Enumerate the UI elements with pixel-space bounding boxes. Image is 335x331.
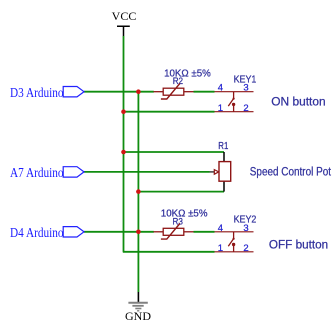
junction on D3 row	[136, 89, 141, 94]
svg-text:R1: R1	[218, 140, 228, 152]
connector A7 Arduino	[10, 166, 84, 181]
KEY1 pin 4-3 bar	[215, 91, 254, 93]
svg-text:D4 Arduino: D4 Arduino	[10, 226, 63, 241]
svg-text:2: 2	[243, 103, 248, 114]
R1 bottom lead	[223, 181, 225, 191]
svg-text:1: 1	[218, 103, 223, 114]
KEY1 switch contacts and lever	[233, 92, 235, 98]
svg-text:10KΩ ±5%: 10KΩ ±5%	[161, 208, 208, 220]
KEY2 switch contacts and lever	[233, 232, 235, 238]
R1 wiper arrow	[210, 171, 215, 173]
KEY2 pin 4-3 bar	[215, 231, 254, 233]
wire pot top row	[124, 151, 225, 153]
port symbol D3	[63, 87, 84, 97]
svg-text:1: 1	[218, 243, 223, 254]
wire A7 wiper row	[84, 171, 210, 173]
wire pot bottom row	[138, 191, 224, 193]
svg-text:4: 4	[218, 83, 223, 94]
svg-text:Speed Control Pot: Speed Control Pot	[250, 165, 332, 179]
R1 top lead	[223, 152, 225, 162]
junction on KEY1 pin1 row	[121, 109, 126, 114]
KEY2 pin 1-2 bar	[215, 251, 254, 253]
wire R3 to KEY2 pin4	[194, 231, 215, 233]
svg-text:D3 Arduino: D3 Arduino	[10, 86, 63, 101]
svg-text:R2: R2	[173, 76, 183, 86]
ground bars	[128, 302, 147, 304]
connector D3 Arduino	[10, 86, 84, 101]
svg-text:OFF button: OFF button	[269, 237, 328, 251]
wire R2 to KEY1 pin4	[194, 91, 215, 93]
junction on D4 row	[136, 230, 141, 235]
svg-text:2: 2	[243, 243, 248, 254]
switch KEY2	[215, 214, 257, 255]
VCC T-bar and stub	[117, 26, 130, 36]
resistor R2 body and leads	[154, 91, 164, 93]
ground symbol GND	[125, 292, 151, 323]
wire KEY2 pin1 row	[123, 251, 215, 253]
svg-text:3: 3	[243, 83, 248, 94]
wire D3 row	[84, 91, 154, 93]
svg-text:A7 Arduino: A7 Arduino	[10, 166, 63, 181]
wire D4 row	[84, 231, 154, 233]
svg-text:4: 4	[218, 223, 223, 234]
wire VCC vertical rail	[123, 36, 125, 252]
switch KEY1	[215, 73, 257, 114]
svg-text:3: 3	[243, 223, 248, 234]
potentiometer R1	[210, 140, 231, 192]
wire GND vertical rail	[137, 92, 139, 292]
svg-text:VCC: VCC	[112, 9, 137, 23]
svg-text:10KΩ ±5%: 10KΩ ±5%	[164, 68, 211, 80]
resistor R3 body and leads	[154, 231, 164, 233]
port symbol D4	[63, 227, 84, 237]
resistor R2	[154, 68, 211, 100]
svg-text:R3: R3	[173, 216, 183, 226]
connector D4 Arduino	[10, 226, 84, 241]
power symbol VCC	[112, 9, 137, 36]
wire KEY1 pin1 row	[124, 111, 215, 113]
junction on pot bottom row	[136, 189, 141, 194]
junction on pot top row	[121, 150, 126, 155]
resistor R3	[154, 208, 208, 240]
svg-text:GND: GND	[125, 309, 151, 323]
svg-text:ON button: ON button	[271, 95, 325, 109]
KEY1 pin 1-2 bar	[215, 111, 254, 113]
R1 body	[219, 162, 231, 182]
ground stub	[137, 292, 139, 302]
port symbol A7	[63, 167, 84, 177]
